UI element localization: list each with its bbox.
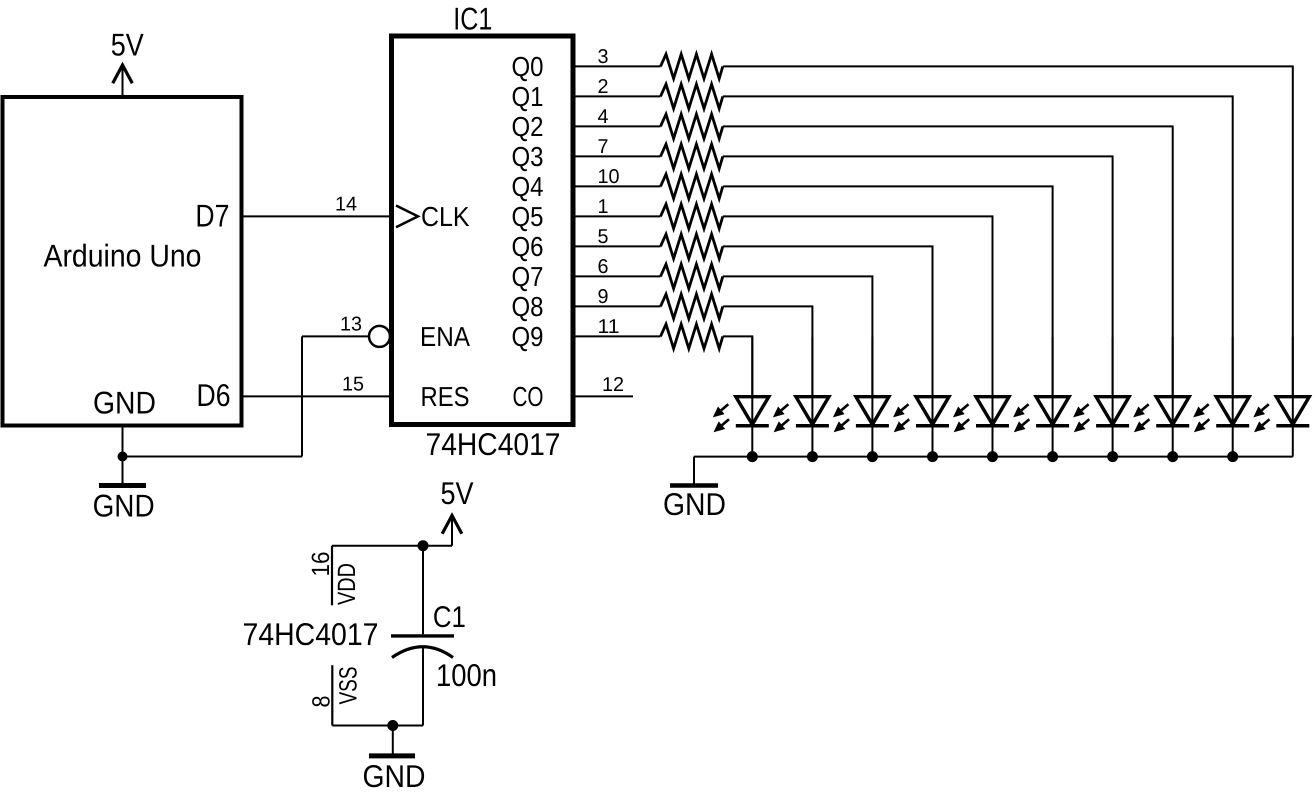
svg-text:ENA: ENA <box>420 321 471 352</box>
svg-text:74HC4017: 74HC4017 <box>426 426 561 462</box>
svg-text:VDD: VDD <box>333 563 361 605</box>
wire ENA drop to GND net <box>301 336 303 456</box>
ground symbol (Arduino) <box>99 483 146 488</box>
svg-text:D7: D7 <box>195 198 229 234</box>
resistor (Q8 series) <box>661 294 723 318</box>
wire Q5 output (pin 1) to resistor <box>573 215 661 217</box>
wire bus to ground <box>693 457 695 486</box>
svg-text:13: 13 <box>340 313 362 335</box>
wire Q4 output (pin 10) to resistor <box>573 185 661 187</box>
svg-text:10: 10 <box>598 166 620 188</box>
resistor (Q0 series) <box>661 54 723 78</box>
LED 10 <box>1253 337 1309 457</box>
svg-text:2: 2 <box>598 76 609 98</box>
svg-text:Q5: Q5 <box>512 201 544 232</box>
svg-text:5: 5 <box>598 226 609 248</box>
wire to ground (decoupling) <box>392 726 394 756</box>
LED 3 <box>833 337 889 457</box>
resistor (Q2 series) <box>661 114 723 138</box>
svg-text:CLK: CLK <box>421 201 470 232</box>
svg-text:Q8: Q8 <box>512 291 544 322</box>
wire resistor to LED column 1 <box>723 336 753 396</box>
wire CO (pin 12) stub <box>573 395 633 397</box>
svg-text:5V: 5V <box>111 27 144 63</box>
svg-text:74HC4017: 74HC4017 <box>243 616 379 652</box>
svg-text:Q3: Q3 <box>512 141 544 172</box>
wire resistor to LED column 4 <box>723 246 933 396</box>
wire Arduino GND down <box>122 426 124 486</box>
wire capacitor C1 bottom <box>422 648 424 726</box>
Arduino Uno module box <box>3 97 242 426</box>
svg-text:7: 7 <box>598 136 609 158</box>
svg-text:GND: GND <box>93 385 156 421</box>
svg-text:5V: 5V <box>441 475 474 511</box>
LED 2 <box>773 337 829 457</box>
junction dot LED 3 <box>867 451 878 462</box>
clock input triangle (CLK pin 14) <box>396 206 418 228</box>
svg-text:11: 11 <box>598 316 620 338</box>
wire resistor to LED column 3 <box>723 276 873 396</box>
svg-text:Q1: Q1 <box>512 81 544 112</box>
junction dot LED 1 <box>747 451 758 462</box>
inverter bubble on ENA (pin 13) <box>369 326 390 347</box>
wire Q6 output (pin 5) to resistor <box>573 245 661 247</box>
LED 5 <box>953 337 1009 457</box>
resistor (Q4 series) <box>661 174 723 198</box>
wire Q8 output (pin 9) to resistor <box>573 305 661 307</box>
wire Q3 output (pin 7) to resistor <box>573 155 661 157</box>
wire Q2 output (pin 4) to resistor <box>573 125 661 127</box>
LED 9 <box>1193 337 1249 457</box>
svg-text:C1: C1 <box>433 601 466 634</box>
resistor (Q3 series) <box>661 144 723 168</box>
svg-text:Q0: Q0 <box>512 51 544 82</box>
junction dot LED 7 <box>1107 451 1118 462</box>
5V supply arrowhead (decoupling) <box>442 516 462 534</box>
5V supply arrow shaft (decoupling) <box>451 519 453 546</box>
svg-text:100n: 100n <box>436 657 497 693</box>
svg-text:RES: RES <box>421 381 470 412</box>
junction dot LED 2 <box>807 451 818 462</box>
wire resistor to LED column 5 <box>723 216 993 396</box>
wire to ENA bubble (pin 13) <box>302 335 369 337</box>
resistor (Q7 series) <box>661 264 723 288</box>
wire D7 to CLK (pin 14) <box>243 215 392 217</box>
svg-text:Q2: Q2 <box>512 111 544 142</box>
svg-text:Q4: Q4 <box>512 171 544 202</box>
wire 5V node down to capacitor C1 <box>422 546 424 635</box>
VDD pin line (pin 16) <box>331 546 333 606</box>
wire resistor to LED column 10 <box>723 66 1293 396</box>
svg-text:Q7: Q7 <box>512 261 544 292</box>
capacitor C1 bottom plate (curved) <box>392 647 453 658</box>
svg-text:12: 12 <box>602 374 624 396</box>
junction dot LED 6 <box>1047 451 1058 462</box>
junction dot LED 9 <box>1227 451 1238 462</box>
wire resistor to LED column 7 <box>723 156 1113 396</box>
wire VDD pin to 5V <box>332 545 452 547</box>
resistor (Q6 series) <box>661 234 723 258</box>
wire Q1 output (pin 2) to resistor <box>573 95 661 97</box>
svg-text:16: 16 <box>307 552 335 577</box>
svg-text:IC1: IC1 <box>453 0 492 36</box>
svg-text:1: 1 <box>598 196 609 218</box>
wire resistor to LED column 6 <box>723 186 1053 396</box>
svg-text:Arduino Uno: Arduino Uno <box>44 238 202 274</box>
svg-text:GND: GND <box>93 488 155 524</box>
svg-text:4: 4 <box>598 106 609 128</box>
junction dot 5V node <box>418 540 429 551</box>
wire resistor to LED column 9 <box>723 96 1233 396</box>
wire Q9 output (pin 11) to resistor <box>573 335 661 337</box>
resistor (Q9 series) <box>661 324 723 348</box>
svg-text:Q6: Q6 <box>512 231 544 262</box>
svg-text:Q9: Q9 <box>512 321 544 352</box>
junction dot LED 5 <box>987 451 998 462</box>
wire D6 to RES (pin 15) <box>243 395 392 397</box>
wire Q7 output (pin 6) to resistor <box>573 275 661 277</box>
svg-text:GND: GND <box>363 758 426 794</box>
junction dot LED 4 <box>927 451 938 462</box>
LED 1 <box>713 337 769 457</box>
wire LED cathode bus <box>694 456 1293 458</box>
ground symbol (LED bus) <box>670 483 718 488</box>
svg-text:GND: GND <box>663 486 726 522</box>
LED 6 <box>1013 337 1069 457</box>
svg-text:8: 8 <box>308 696 336 708</box>
LED 4 <box>893 337 949 457</box>
resistor (Q5 series) <box>661 204 723 228</box>
wire GND junction to ENA drop <box>123 456 303 458</box>
svg-text:D6: D6 <box>197 377 231 413</box>
VSS pin line (pin 8) <box>331 665 333 725</box>
LED 7 <box>1073 337 1129 457</box>
wire VSS pin to capacitor bottom <box>332 725 423 727</box>
wire resistor to LED column 8 <box>723 126 1173 396</box>
capacitor C1 top plate <box>391 634 454 637</box>
svg-text:14: 14 <box>335 193 357 215</box>
5V supply arrow shaft (Arduino) <box>122 68 124 97</box>
junction dot LED 8 <box>1167 451 1178 462</box>
resistor (Q1 series) <box>661 84 723 108</box>
wire resistor to LED column 2 <box>723 306 813 396</box>
wire Q0 output (pin 3) to resistor <box>573 65 661 67</box>
junction dot Arduino GND <box>118 452 128 462</box>
svg-text:9: 9 <box>598 286 609 308</box>
op IC1 74HC4017 box <box>392 36 574 425</box>
svg-text:15: 15 <box>342 373 364 395</box>
svg-text:CO: CO <box>513 381 544 412</box>
svg-text:VSS: VSS <box>335 667 363 705</box>
svg-text:3: 3 <box>598 46 609 68</box>
LED 8 <box>1133 337 1189 457</box>
svg-text:6: 6 <box>598 256 609 278</box>
ground symbol (decoupling) <box>369 753 415 758</box>
5V supply arrowhead (Arduino) <box>113 65 133 83</box>
junction dot VSS GND node <box>387 720 398 731</box>
